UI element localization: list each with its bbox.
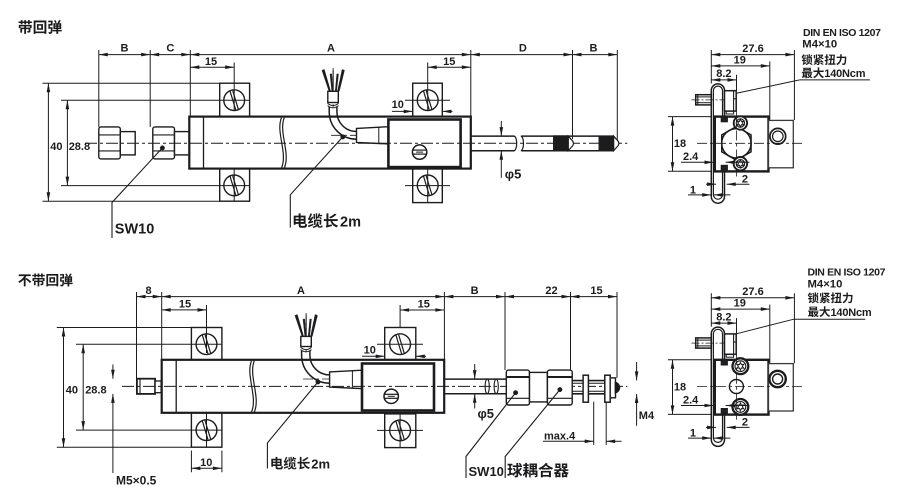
- mounting foot bottom-right (bottom): [385, 414, 416, 448]
- DIN EN ISO note + leader (bottom end view): [794, 318, 866, 320]
- thread band 1 (black): [553, 136, 568, 152]
- collar 1: [120, 132, 135, 155]
- clamp claw stadium (bottom): [711, 327, 724, 446]
- svg-text:8: 8: [145, 285, 151, 297]
- mounting foot bottom-right: [413, 169, 443, 203]
- clamp claw stadium (top): [711, 84, 724, 203]
- svg-text:B: B: [471, 285, 479, 297]
- dimension 18 (bottom): [672, 360, 674, 415]
- leader cable length 2m (top): [341, 135, 345, 139]
- svg-text:27.6: 27.6: [742, 286, 763, 298]
- cable centerline into box (bottom): [303, 378, 371, 380]
- dimension 27.6 (bottom): [711, 297, 794, 299]
- svg-text:C: C: [166, 43, 174, 55]
- dimension 19 (bottom): [711, 308, 770, 310]
- flange face square (top): [715, 117, 769, 172]
- torx screws (bottom): [733, 358, 749, 374]
- main centerline (bottom drawing): [122, 385, 627, 387]
- dimension M4: [636, 362, 638, 380]
- right feet horizontal centerlines: [405, 99, 450, 101]
- clamp teeth nubs (top): [722, 117, 728, 121]
- serrated edge (top): [726, 170, 768, 172]
- foot screws (bottom drawing): [196, 334, 217, 355]
- svg-text:19: 19: [734, 298, 746, 310]
- cone tip 1: [568, 136, 573, 150]
- M5 diameter arrows + leader M5x0.5: [112, 365, 114, 379]
- svg-text:28.8: 28.8: [85, 385, 106, 397]
- cable wires fan (bottom): [295, 315, 304, 337]
- svg-text:M4×10: M4×10: [802, 39, 837, 51]
- dimension 28.8 vertical (top): [66, 100, 68, 185]
- cable centerline into box: [331, 134, 398, 136]
- ball coupler hex nut 1 (SW10): [506, 370, 529, 405]
- title: without-spring-return label (不带回弹): [18, 274, 31, 286]
- dimension 28.8 vertical (bottom): [82, 344, 84, 430]
- DIN EN ISO note + leader (top end view): [800, 79, 870, 81]
- svg-text:19: 19: [734, 54, 746, 66]
- extension lines for chain (bottom): [136, 292, 138, 379]
- plunger rod section 1 (top): [471, 135, 515, 137]
- mounting foot bottom-left (bottom): [191, 413, 222, 447]
- svg-text:140Ncm: 140Ncm: [824, 68, 865, 80]
- svg-text:B: B: [121, 43, 129, 55]
- ball coupler hex nut 2: [547, 370, 572, 405]
- svg-text:A: A: [327, 43, 335, 55]
- main centerline (top drawing): [85, 142, 627, 144]
- push rod out of body (bottom): [444, 378, 506, 380]
- thread band 2 (black): [599, 136, 614, 152]
- svg-text:φ5: φ5: [505, 167, 522, 182]
- cable ferrule (bottom): [305, 313, 307, 352]
- title: with-spring-return label (带回弹): [19, 20, 32, 34]
- svg-text:10: 10: [392, 99, 404, 111]
- svg-text:22: 22: [545, 285, 557, 297]
- rod break ellipses (bottom): [485, 379, 489, 394]
- svg-text:2m: 2m: [311, 456, 330, 471]
- housing circle (bottom end view): [769, 371, 785, 387]
- flange face square (bottom): [715, 360, 769, 415]
- head box (top): [388, 120, 460, 168]
- svg-text:DIN EN ISO 1207: DIN EN ISO 1207: [803, 27, 881, 39]
- svg-text:M4×10: M4×10: [808, 279, 843, 291]
- svg-text:8.2: 8.2: [716, 311, 731, 323]
- cable break arcs (bottom): [301, 347, 312, 349]
- svg-text:15: 15: [205, 56, 217, 68]
- body end cap line (bottom): [175, 360, 177, 413]
- dimension 8.2 (bottom): [711, 322, 736, 324]
- collar 2: [175, 132, 190, 155]
- svg-text:8.2: 8.2: [716, 68, 731, 80]
- foot centerlines vertical: [233, 169, 235, 202]
- foot screws (top drawing): [224, 90, 245, 111]
- end view screw M4 (bottom): [696, 338, 712, 348]
- mounting foot bottom-left: [220, 169, 250, 202]
- dimension 40 vertical (bottom): [63, 328, 65, 448]
- dimension 27.6 (top): [711, 54, 794, 56]
- svg-text:140Ncm: 140Ncm: [831, 307, 872, 319]
- threaded M4 rod: [572, 380, 610, 382]
- cable tube elbow (bottom): [302, 351, 330, 384]
- center circle small (bottom end view): [729, 380, 743, 394]
- svg-text:max.4: max.4: [544, 430, 576, 442]
- dimension 15 left (top): [190, 66, 234, 68]
- dimension 15 right (bottom): [400, 309, 444, 311]
- svg-text:DIN EN ISO 1207: DIN EN ISO 1207: [808, 266, 886, 278]
- center hexagon + circle (top end view): [722, 127, 751, 161]
- mounting foot top-right: [413, 83, 443, 116]
- svg-text:2: 2: [742, 417, 748, 429]
- mounting foot top-left (bottom): [191, 328, 222, 360]
- dimension 40 vertical (top): [47, 83, 49, 201]
- cable break arcs under ferrule: [328, 103, 339, 105]
- hex nut 2 SW10: [153, 127, 175, 159]
- svg-text:40: 40: [66, 385, 78, 397]
- sensor body tube (top): [189, 117, 471, 169]
- head box screw: [412, 145, 426, 159]
- svg-text:B: B: [590, 43, 598, 55]
- cone tip 2: [614, 136, 619, 150]
- clamp block (bottom): [725, 334, 737, 354]
- svg-text:10: 10: [200, 457, 212, 469]
- crosshair centerlines (top): [697, 142, 803, 144]
- svg-text:2.4: 2.4: [683, 151, 699, 163]
- mounting foot top-left: [220, 83, 250, 116]
- dimension 8.2 (top): [711, 79, 736, 81]
- cable ferrule (top): [332, 68, 334, 108]
- end piece with ball tip: [610, 378, 615, 398]
- foot centerlines (bottom): [206, 413, 208, 447]
- mounting foot top-right (bottom): [385, 328, 416, 360]
- svg-text:D: D: [519, 43, 527, 55]
- torx screws (top): [734, 116, 747, 129]
- svg-text:15: 15: [443, 56, 455, 68]
- svg-text:15: 15: [418, 299, 430, 311]
- extension lines for chain (top): [98, 50, 100, 127]
- svg-text:2.4: 2.4: [683, 394, 699, 406]
- dimension chain 8 A B 22 15 (bottom): [137, 296, 618, 298]
- right housing block (bottom): [769, 364, 794, 411]
- svg-text:2: 2: [742, 173, 748, 185]
- dimension phi5 (top): [500, 121, 502, 136]
- head box (bottom): [362, 364, 434, 411]
- head box screw (bottom): [384, 389, 398, 403]
- dimension chain B C A D B (top): [99, 54, 618, 56]
- body end cap line: [203, 117, 205, 169]
- svg-text:2m: 2m: [340, 215, 361, 231]
- svg-text:SW10: SW10: [469, 464, 504, 479]
- break wave (body top): [280, 118, 284, 168]
- sensor body tube (bottom): [162, 360, 445, 413]
- clamp block (top): [725, 91, 737, 111]
- svg-text:18: 18: [674, 381, 686, 393]
- clamp teeth nubs (bottom): [722, 360, 728, 364]
- dimension phi5 (bottom): [474, 364, 476, 379]
- svg-text:φ5: φ5: [478, 406, 495, 421]
- serrated edge (bottom): [726, 359, 768, 361]
- washer 2: [605, 375, 610, 402]
- svg-text:SW10: SW10: [115, 222, 155, 238]
- break wave (bottom body): [250, 361, 254, 412]
- dimension 15 right (top): [428, 66, 471, 68]
- svg-text:M4: M4: [639, 410, 655, 422]
- svg-text:27.6: 27.6: [742, 43, 763, 55]
- leader ball coupler (bottom): [558, 387, 562, 391]
- rod break arc: [521, 136, 524, 151]
- right housing block (top): [769, 120, 794, 167]
- cable boot into head box: [357, 127, 389, 144]
- M5 threaded stud (bottom left): [137, 379, 155, 394]
- cable boot into head box (bottom): [330, 370, 362, 388]
- svg-text:A: A: [297, 285, 305, 297]
- coupler middle block: [530, 372, 548, 402]
- svg-text:10: 10: [364, 344, 376, 356]
- svg-text:28.8: 28.8: [69, 141, 90, 153]
- housing circle (top end view): [770, 128, 786, 144]
- cable tube elbow (top): [329, 107, 357, 140]
- leader SW10 (top): [160, 146, 164, 150]
- end view screw M4 (top): [696, 95, 712, 105]
- dimension 15 left (bottom): [162, 309, 207, 311]
- plunger rod section 2 (top): [522, 135, 600, 137]
- svg-text:M5×0.5: M5×0.5: [116, 474, 157, 488]
- leader cable length 2m (bottom): [316, 380, 320, 384]
- stud collar: [155, 381, 161, 393]
- dimension 10 below left foot (bottom): [190, 451, 192, 473]
- dimension 19 (top): [711, 65, 770, 67]
- leader SW10 (bottom): [513, 391, 517, 395]
- hex nut 1 (left): [99, 127, 121, 159]
- svg-text:40: 40: [50, 141, 62, 153]
- washer 1: [583, 375, 588, 402]
- dimension 18 (top): [672, 117, 674, 172]
- cable wires fan (top): [322, 69, 331, 91]
- svg-text:15: 15: [179, 299, 191, 311]
- svg-text:18: 18: [674, 138, 686, 150]
- crosshair centerlines (bottom): [697, 386, 803, 388]
- svg-text:15: 15: [590, 285, 602, 297]
